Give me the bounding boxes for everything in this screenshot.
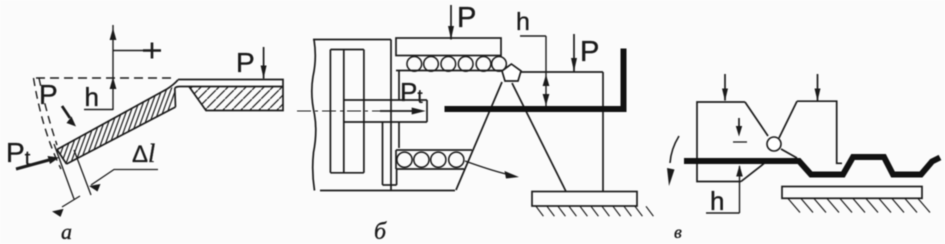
right punch (fig v) xyxy=(779,101,842,163)
slider top surface xyxy=(396,70,502,72)
thick strip (fig b) xyxy=(445,106,627,112)
dimension vertical with arrows (fig a) xyxy=(84,25,161,110)
svg-text:б: б xyxy=(374,219,387,244)
Pt arrow (fig b) xyxy=(380,108,426,115)
die block (fig v) xyxy=(782,187,922,199)
bottom rollers xyxy=(397,152,464,167)
cylinder body break line xyxy=(312,40,316,191)
top plate horizontal section xyxy=(175,80,283,111)
h dimension (fig b) xyxy=(520,36,549,106)
left punch (fig v) xyxy=(697,102,768,182)
P force arrow on incline xyxy=(62,106,76,127)
small stroke arrows above and below strip (fig v) xyxy=(733,118,747,142)
thick wall (fig b) xyxy=(621,49,627,113)
dashed undeflected spring edge 2 xyxy=(39,78,57,145)
cylinder outline xyxy=(313,40,455,191)
svg-text:P: P xyxy=(236,47,255,78)
h dimension (fig v) xyxy=(706,165,743,213)
punch arrow left (fig v) xyxy=(722,74,728,101)
P down arrow (fig b right) xyxy=(571,34,577,72)
svg-text:P: P xyxy=(580,36,599,68)
leaf spring inclined section outline xyxy=(57,80,178,164)
pentagon pivot xyxy=(502,64,521,81)
P down arrow (fig b top) xyxy=(448,5,454,40)
svg-text:h: h xyxy=(516,8,530,36)
roller channel xyxy=(396,150,472,169)
svg-text:h: h xyxy=(710,186,724,216)
svg-text:h: h xyxy=(85,82,99,112)
toggle leg right xyxy=(512,83,566,192)
cross mark xyxy=(143,43,161,59)
svg-text:а: а xyxy=(61,219,72,244)
leader arrow (fig b) xyxy=(465,161,519,179)
dashed undeflected spring edge 1 xyxy=(34,78,62,169)
svg-text:Δl: Δl xyxy=(132,139,155,168)
top bar xyxy=(396,38,501,56)
clamp block xyxy=(521,72,603,192)
Pt force arrow xyxy=(16,156,59,169)
centerline xyxy=(297,110,380,112)
P down arrow (fig a top right) xyxy=(261,47,267,79)
leaf spring hatch xyxy=(40,70,183,185)
die hatch (fig v) xyxy=(788,199,930,213)
ground hatch (fig b) xyxy=(536,206,653,216)
punch arrow right (fig v) xyxy=(815,74,821,101)
delta-l leader and arrows xyxy=(52,170,158,217)
pivot circle (fig v) xyxy=(767,137,781,151)
piston rod xyxy=(344,100,427,122)
hatched block under plate xyxy=(189,87,283,111)
dashed free-position line xyxy=(36,77,176,79)
svg-text:P: P xyxy=(457,2,476,34)
slider left edges xyxy=(383,71,400,186)
delta-l dimension extension lines xyxy=(54,144,91,199)
top balls xyxy=(407,57,506,72)
cylinder chamber xyxy=(330,50,364,173)
svg-text:в: в xyxy=(674,222,682,242)
ground block (fig b) xyxy=(532,192,637,207)
toggle leg left xyxy=(456,82,502,190)
svg-text:P: P xyxy=(39,79,58,110)
corrugated strip (fig v) xyxy=(684,157,940,175)
curved feed arrow (fig v) xyxy=(667,136,679,186)
